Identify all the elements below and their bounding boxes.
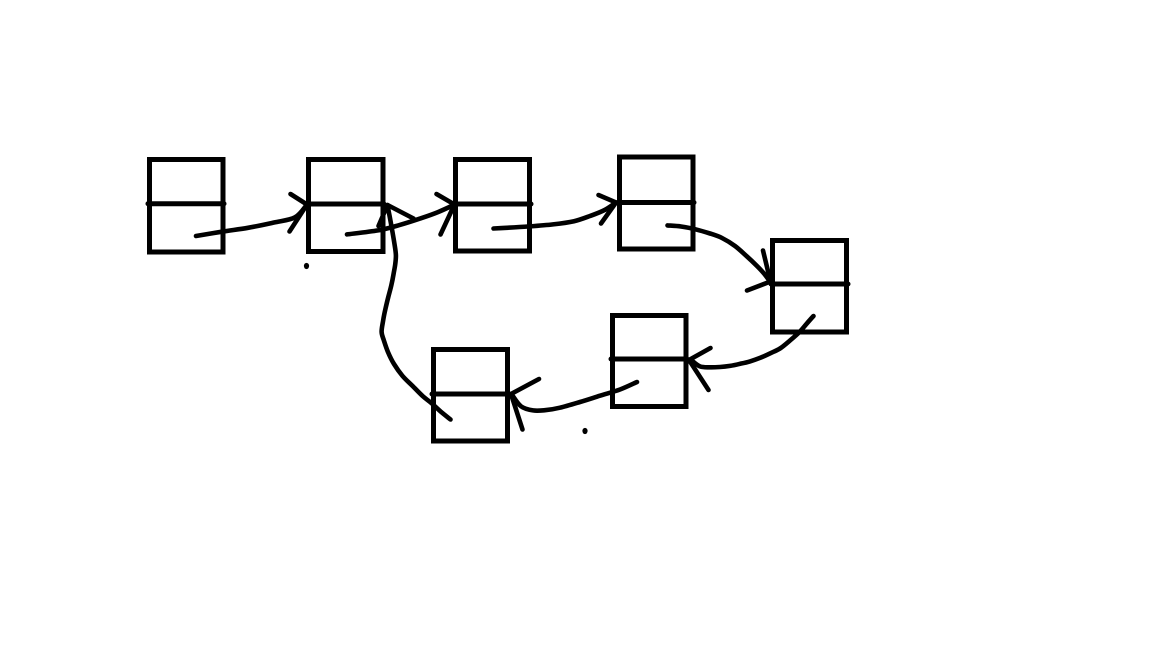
node box N7 bbox=[432, 350, 509, 442]
node box N5 bbox=[771, 241, 848, 333]
stray dot right bbox=[582, 428, 587, 434]
arrow N6 to N7 bbox=[511, 379, 637, 430]
arrow N2 to N3 bbox=[347, 194, 455, 235]
node box N4 bbox=[618, 157, 694, 249]
node box N6 bbox=[611, 316, 687, 407]
arrow N1 to N2 bbox=[196, 194, 307, 236]
arrow N5 to N6 bbox=[689, 316, 814, 390]
stray dot left bbox=[304, 263, 309, 269]
node box N3 bbox=[454, 160, 531, 252]
node box N2 bbox=[307, 160, 384, 252]
arrow N7 back to N2 (long curve) bbox=[379, 205, 451, 420]
node box N1 bbox=[148, 160, 224, 253]
arrow N4 to N5 bbox=[668, 225, 771, 290]
arrow N3 to N4 bbox=[494, 195, 617, 229]
